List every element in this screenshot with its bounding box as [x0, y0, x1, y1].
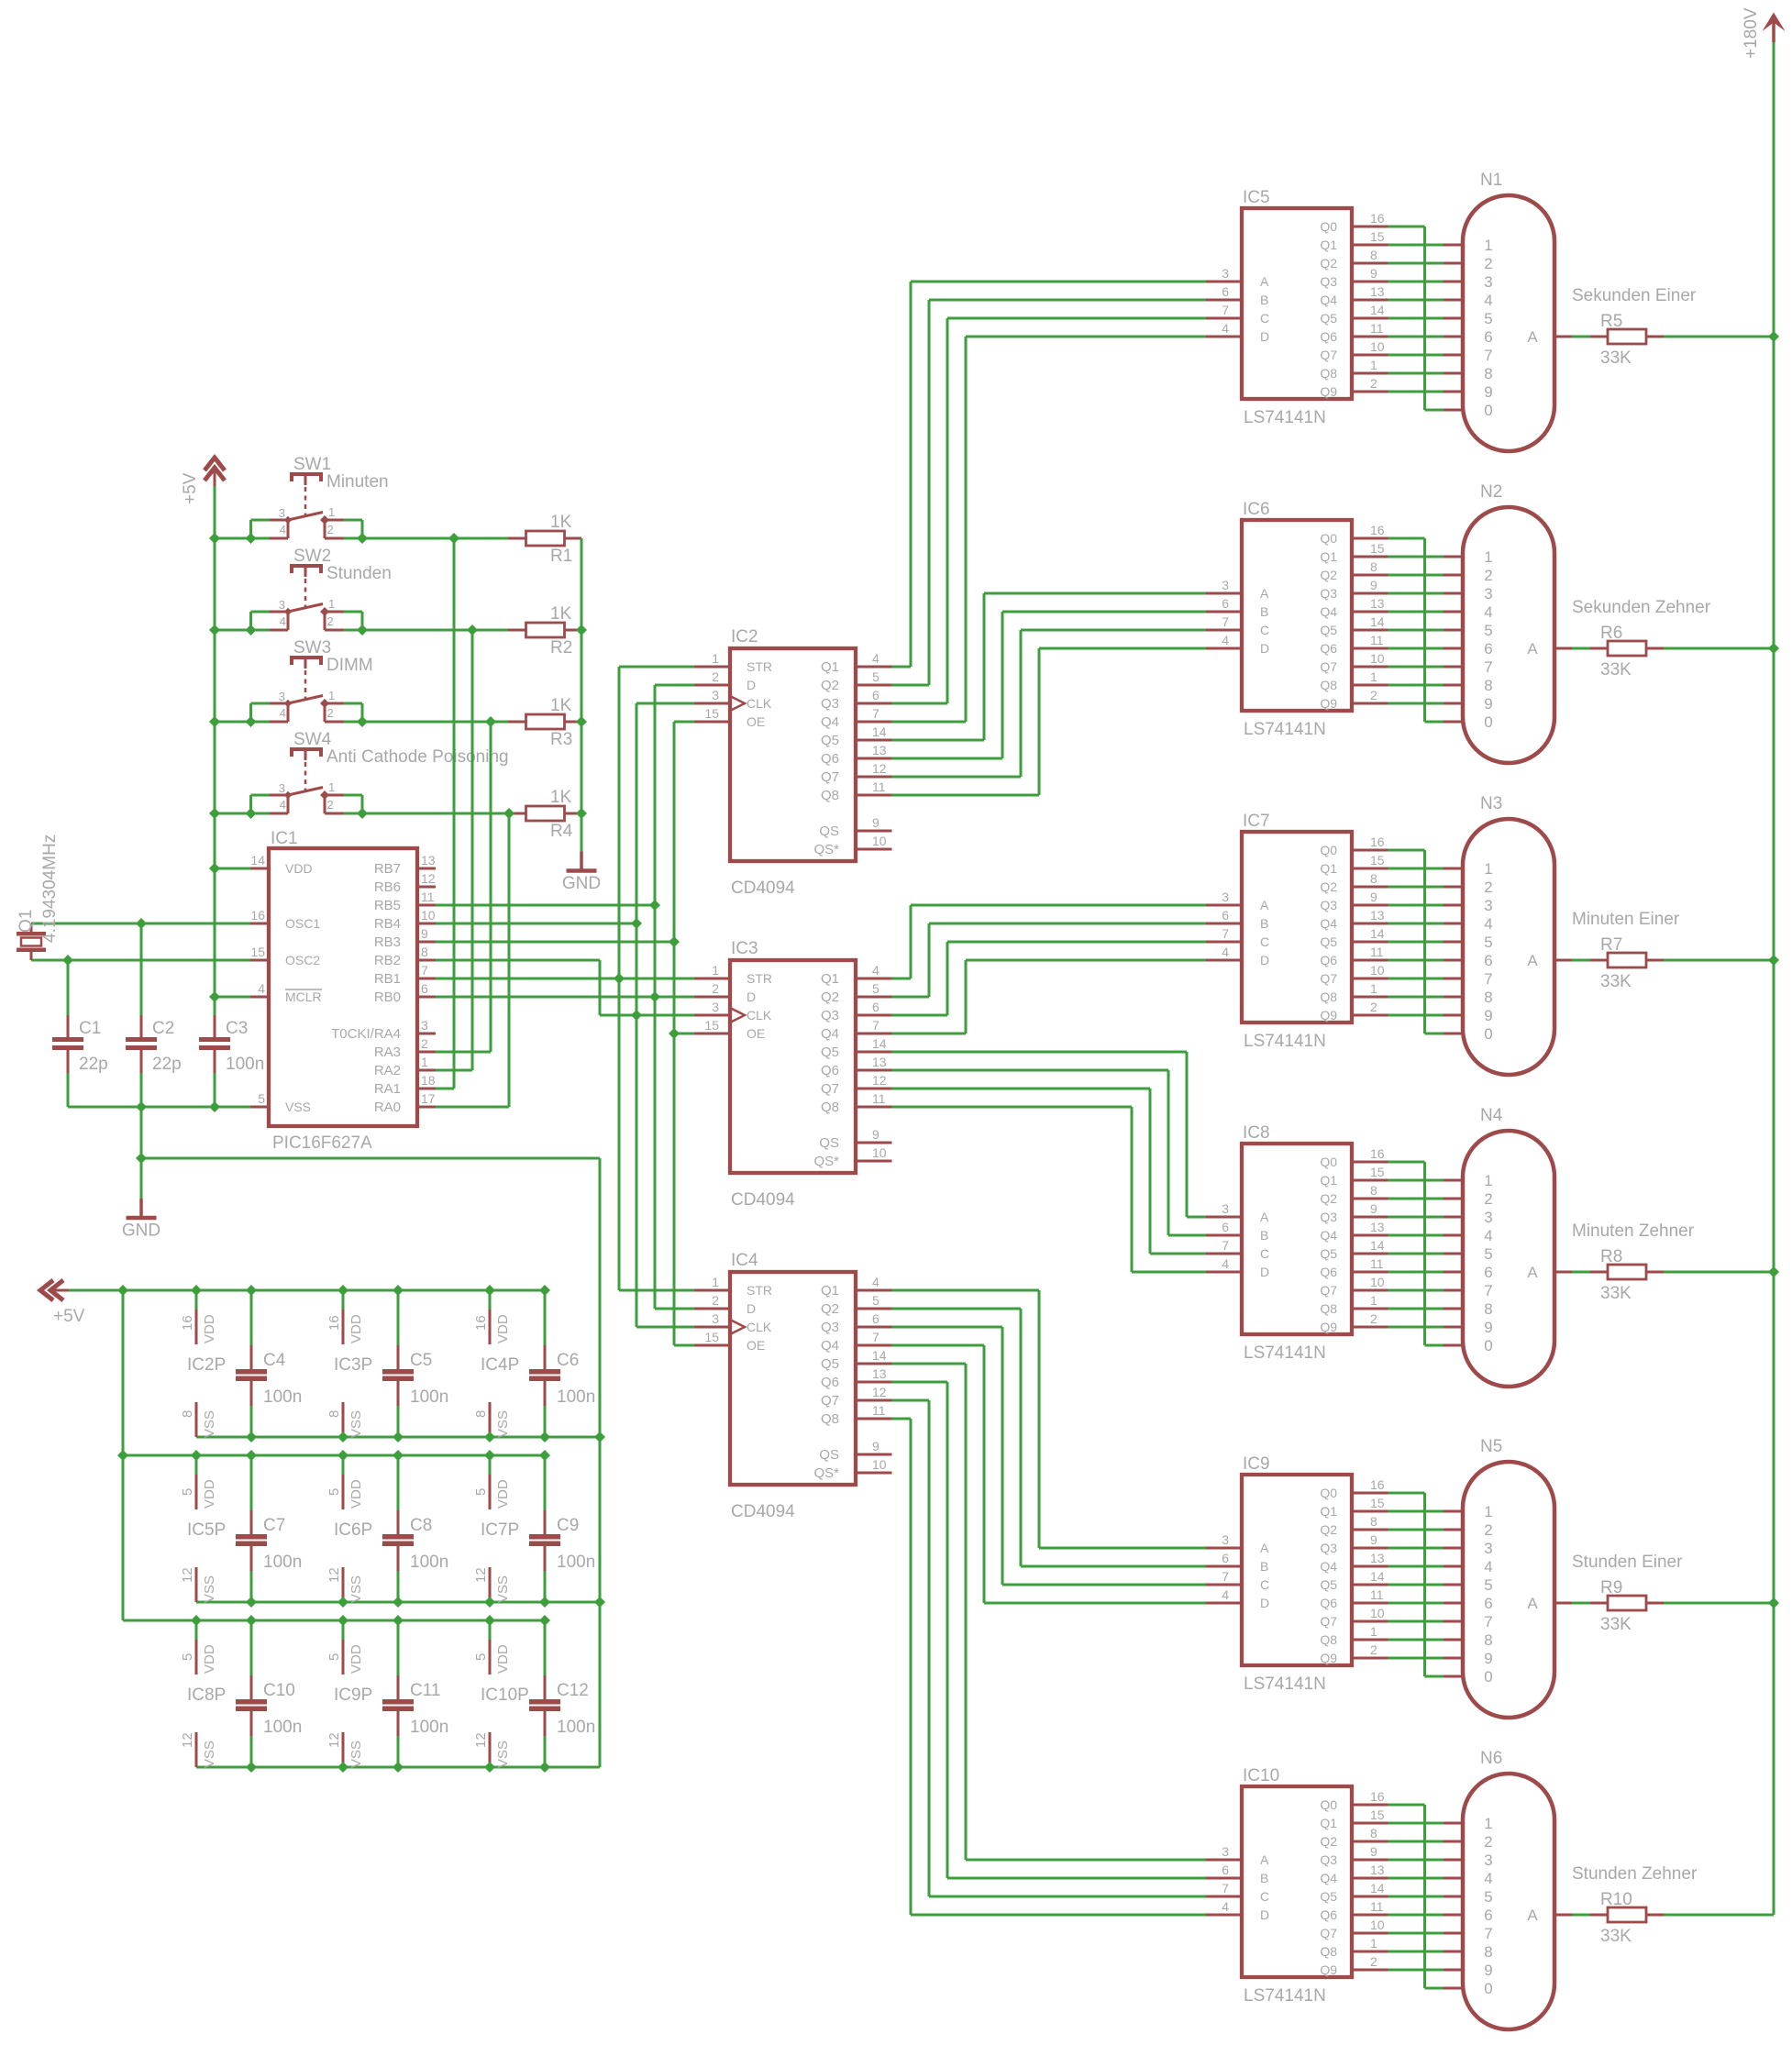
- svg-text:C5: C5: [410, 1351, 432, 1370]
- svg-text:CD4094: CD4094: [731, 879, 795, 898]
- svg-text:A: A: [1527, 640, 1538, 658]
- svg-text:4: 4: [1484, 1558, 1492, 1575]
- svg-text:Q4: Q4: [821, 714, 839, 730]
- svg-text:LS74141N: LS74141N: [1244, 1675, 1326, 1694]
- svg-text:22p: 22p: [152, 1055, 182, 1074]
- svg-text:Stunden Einer: Stunden Einer: [1572, 1553, 1683, 1572]
- svg-text:Q6: Q6: [1320, 641, 1337, 656]
- svg-text:5: 5: [872, 1293, 879, 1308]
- svg-text:8: 8: [473, 1410, 489, 1418]
- svg-text:C4: C4: [263, 1351, 286, 1370]
- svg-text:C: C: [1260, 1889, 1269, 1904]
- svg-text:6: 6: [1222, 1863, 1229, 1877]
- svg-text:STR: STR: [747, 659, 772, 674]
- svg-text:7: 7: [421, 963, 428, 978]
- svg-text:C: C: [1260, 623, 1269, 637]
- svg-text:0: 0: [1484, 1668, 1492, 1686]
- svg-text:6: 6: [1484, 640, 1492, 658]
- svg-text:Q1: Q1: [1320, 1504, 1337, 1519]
- svg-text:Q5: Q5: [821, 1045, 839, 1060]
- svg-text:STR: STR: [747, 1283, 772, 1298]
- svg-text:Q6: Q6: [1320, 1907, 1337, 1922]
- svg-text:Q0: Q0: [1320, 1486, 1337, 1500]
- svg-text:7: 7: [1484, 1925, 1492, 1942]
- svg-text:2: 2: [1484, 879, 1492, 896]
- svg-text:3: 3: [279, 781, 285, 795]
- svg-text:16: 16: [1370, 523, 1385, 537]
- svg-text:Q8: Q8: [1320, 989, 1337, 1004]
- svg-text:VSS: VSS: [495, 1575, 511, 1603]
- svg-text:Q0: Q0: [1320, 219, 1337, 234]
- svg-text:LS74141N: LS74141N: [1244, 408, 1326, 427]
- svg-text:3: 3: [712, 1311, 719, 1326]
- svg-text:Q3: Q3: [1320, 1541, 1337, 1555]
- svg-text:7: 7: [1222, 1238, 1229, 1253]
- svg-text:18: 18: [421, 1073, 436, 1088]
- svg-text:Q8: Q8: [1320, 1944, 1337, 1959]
- svg-text:A: A: [1260, 898, 1269, 912]
- svg-text:5: 5: [872, 981, 879, 996]
- svg-text:Q8: Q8: [821, 1411, 839, 1427]
- svg-text:1: 1: [1370, 1936, 1377, 1951]
- svg-text:0: 0: [1484, 402, 1492, 419]
- svg-text:13: 13: [421, 853, 436, 868]
- svg-text:Q5: Q5: [821, 1356, 839, 1372]
- svg-text:9: 9: [1484, 695, 1492, 713]
- svg-text:13: 13: [872, 743, 887, 757]
- svg-text:33K: 33K: [1600, 1284, 1632, 1303]
- svg-text:QS*: QS*: [813, 842, 839, 857]
- svg-text:1: 1: [328, 780, 335, 794]
- svg-text:A: A: [1527, 952, 1538, 969]
- svg-text:22p: 22p: [79, 1055, 108, 1074]
- svg-text:3: 3: [1222, 266, 1229, 281]
- svg-text:8: 8: [1484, 1300, 1492, 1318]
- svg-text:Minuten Zehner: Minuten Zehner: [1572, 1221, 1695, 1241]
- svg-text:6: 6: [872, 1311, 879, 1326]
- svg-text:Q4: Q4: [821, 1338, 839, 1354]
- svg-text:+180V: +180V: [1742, 7, 1761, 59]
- svg-text:8: 8: [1370, 248, 1377, 262]
- svg-text:Q2: Q2: [1320, 1834, 1337, 1849]
- svg-text:A: A: [1260, 1852, 1269, 1867]
- svg-text:8: 8: [180, 1410, 195, 1418]
- svg-text:11: 11: [1370, 633, 1384, 647]
- svg-text:3: 3: [1222, 1201, 1229, 1216]
- svg-text:SW2: SW2: [293, 547, 331, 566]
- svg-text:Q7: Q7: [1320, 971, 1337, 986]
- svg-text:33K: 33K: [1600, 972, 1632, 991]
- svg-text:7: 7: [872, 706, 879, 721]
- svg-text:100n: 100n: [410, 1387, 448, 1407]
- svg-text:11: 11: [1370, 945, 1384, 959]
- svg-text:12: 12: [872, 1073, 887, 1088]
- svg-text:Q6: Q6: [1320, 329, 1337, 344]
- svg-text:5: 5: [180, 1653, 195, 1661]
- svg-text:Q6: Q6: [1320, 1265, 1337, 1279]
- svg-text:IC4P: IC4P: [481, 1355, 519, 1375]
- svg-text:RB1: RB1: [374, 971, 401, 987]
- svg-text:Minuten: Minuten: [326, 472, 389, 492]
- svg-text:IC9: IC9: [1243, 1454, 1270, 1474]
- svg-text:Q2: Q2: [821, 989, 839, 1005]
- svg-text:4: 4: [872, 963, 879, 978]
- svg-text:Q4: Q4: [821, 1026, 839, 1042]
- svg-text:15: 15: [1370, 541, 1385, 556]
- svg-text:9: 9: [872, 1439, 879, 1454]
- svg-text:MCLR: MCLR: [285, 989, 322, 1004]
- svg-text:D: D: [1260, 953, 1269, 967]
- svg-text:9: 9: [1484, 1319, 1492, 1336]
- svg-text:R7: R7: [1600, 935, 1622, 955]
- svg-text:GND: GND: [562, 874, 601, 893]
- svg-text:2: 2: [1484, 255, 1492, 272]
- svg-text:10: 10: [872, 1145, 887, 1160]
- svg-text:8: 8: [421, 945, 428, 959]
- svg-text:B: B: [1260, 1871, 1268, 1885]
- svg-text:C7: C7: [263, 1516, 285, 1535]
- svg-text:2: 2: [327, 798, 334, 812]
- svg-text:RB7: RB7: [374, 861, 401, 877]
- svg-text:C10: C10: [263, 1681, 295, 1700]
- svg-text:Q9: Q9: [1320, 696, 1337, 711]
- svg-text:Q1: Q1: [821, 971, 839, 987]
- svg-text:VSS: VSS: [348, 1741, 364, 1768]
- svg-text:D: D: [1260, 641, 1269, 656]
- svg-text:OSC1: OSC1: [285, 916, 320, 931]
- svg-text:2: 2: [327, 523, 334, 536]
- svg-text:Q1: Q1: [821, 1283, 839, 1299]
- svg-text:12: 12: [872, 1385, 887, 1399]
- svg-text:Q8: Q8: [1320, 1301, 1337, 1316]
- svg-text:A: A: [1260, 586, 1269, 601]
- svg-text:3: 3: [1484, 1209, 1492, 1226]
- svg-text:VDD: VDD: [348, 1314, 364, 1343]
- svg-text:12: 12: [326, 1732, 342, 1748]
- svg-text:B: B: [1260, 604, 1268, 619]
- svg-text:10: 10: [1370, 339, 1385, 354]
- svg-text:B: B: [1260, 293, 1268, 307]
- svg-text:VSS: VSS: [348, 1575, 364, 1603]
- svg-text:14: 14: [872, 1348, 887, 1363]
- svg-text:3: 3: [1222, 890, 1229, 904]
- svg-text:Minuten Einer: Minuten Einer: [1572, 910, 1680, 929]
- svg-text:A: A: [1260, 1210, 1269, 1224]
- svg-text:7: 7: [1484, 1613, 1492, 1630]
- svg-text:15: 15: [1370, 229, 1385, 244]
- svg-text:33K: 33K: [1600, 1615, 1632, 1634]
- svg-text:1K: 1K: [550, 696, 572, 715]
- svg-text:R9: R9: [1600, 1578, 1622, 1597]
- svg-text:GND: GND: [122, 1221, 160, 1241]
- svg-text:9: 9: [1484, 383, 1492, 401]
- svg-text:16: 16: [1370, 1789, 1385, 1804]
- svg-text:14: 14: [1370, 1569, 1385, 1584]
- svg-text:C: C: [1260, 1246, 1269, 1261]
- svg-text:8: 8: [1484, 365, 1492, 382]
- svg-text:1: 1: [1484, 1172, 1492, 1189]
- svg-text:C: C: [1260, 1577, 1269, 1592]
- svg-text:Q0: Q0: [1320, 1797, 1337, 1812]
- svg-text:14: 14: [1370, 303, 1385, 317]
- svg-text:3: 3: [712, 688, 719, 702]
- svg-text:Q3: Q3: [1320, 1852, 1337, 1867]
- svg-text:16: 16: [180, 1315, 195, 1331]
- svg-text:QS: QS: [819, 824, 839, 839]
- svg-text:Q7: Q7: [1320, 1614, 1337, 1629]
- svg-text:12: 12: [180, 1567, 195, 1583]
- svg-text:15: 15: [1370, 1807, 1385, 1822]
- svg-text:OE: OE: [747, 714, 765, 729]
- svg-text:1: 1: [712, 1275, 719, 1289]
- svg-text:R2: R2: [550, 638, 572, 658]
- svg-text:2: 2: [1370, 688, 1377, 702]
- svg-text:6: 6: [1484, 1595, 1492, 1612]
- svg-text:33K: 33K: [1600, 348, 1632, 368]
- svg-text:100n: 100n: [410, 1553, 448, 1572]
- svg-text:OE: OE: [747, 1338, 765, 1353]
- svg-text:VSS: VSS: [495, 1410, 511, 1438]
- svg-text:Q1: Q1: [1320, 1173, 1337, 1188]
- svg-text:N5: N5: [1480, 1437, 1502, 1456]
- svg-text:CLK: CLK: [747, 1320, 772, 1334]
- svg-text:16: 16: [473, 1315, 489, 1331]
- svg-text:1: 1: [1484, 1503, 1492, 1520]
- svg-text:2: 2: [327, 614, 334, 628]
- svg-text:2: 2: [1370, 1642, 1377, 1657]
- svg-text:15: 15: [704, 1330, 719, 1344]
- svg-text:Q6: Q6: [821, 751, 839, 767]
- svg-text:PIC16F627A: PIC16F627A: [272, 1133, 372, 1153]
- svg-text:QS: QS: [819, 1447, 839, 1463]
- svg-text:33K: 33K: [1600, 1927, 1632, 1946]
- svg-text:Q9: Q9: [1320, 1962, 1337, 1977]
- svg-text:15: 15: [250, 945, 265, 959]
- svg-text:6: 6: [1222, 908, 1229, 923]
- svg-text:D: D: [747, 989, 756, 1004]
- svg-text:Q2: Q2: [821, 678, 839, 693]
- svg-text:Q7: Q7: [821, 1393, 839, 1409]
- svg-text:14: 14: [1370, 1238, 1385, 1253]
- svg-text:12: 12: [473, 1567, 489, 1583]
- svg-text:SW3: SW3: [293, 638, 331, 658]
- svg-text:Q1: Q1: [1320, 1816, 1337, 1830]
- svg-text:IC7P: IC7P: [481, 1520, 519, 1540]
- svg-text:D: D: [1260, 329, 1269, 344]
- svg-text:Q1: Q1: [821, 659, 839, 675]
- svg-text:9: 9: [1484, 1962, 1492, 1979]
- svg-text:QS*: QS*: [813, 1465, 839, 1481]
- svg-text:VSS: VSS: [202, 1575, 217, 1603]
- svg-text:8: 8: [1370, 1183, 1377, 1198]
- svg-text:+5V: +5V: [53, 1307, 85, 1326]
- svg-text:LS74141N: LS74141N: [1244, 1343, 1326, 1363]
- svg-text:3: 3: [1484, 585, 1492, 602]
- svg-text:100n: 100n: [557, 1718, 595, 1737]
- svg-text:QS*: QS*: [813, 1154, 839, 1169]
- svg-text:RB2: RB2: [374, 953, 401, 968]
- svg-text:A: A: [1260, 274, 1269, 289]
- svg-text:Q2: Q2: [1320, 1191, 1337, 1206]
- svg-text:Q5: Q5: [1320, 311, 1337, 326]
- svg-text:0: 0: [1484, 1980, 1492, 1997]
- svg-text:RB5: RB5: [374, 898, 401, 913]
- svg-text:IC2: IC2: [731, 627, 758, 647]
- svg-text:Q4: Q4: [1320, 916, 1337, 931]
- svg-text:5: 5: [258, 1091, 265, 1106]
- svg-text:0: 0: [1484, 713, 1492, 731]
- svg-text:LS74141N: LS74141N: [1244, 1032, 1326, 1051]
- svg-text:10: 10: [872, 834, 887, 848]
- svg-text:2: 2: [1370, 1000, 1377, 1014]
- svg-text:Q8: Q8: [821, 1100, 839, 1115]
- svg-text:A: A: [1260, 1541, 1269, 1555]
- svg-text:8: 8: [1370, 559, 1377, 574]
- svg-text:R3: R3: [550, 730, 572, 749]
- svg-text:5: 5: [1484, 622, 1492, 639]
- svg-text:Q5: Q5: [821, 733, 839, 748]
- svg-text:1: 1: [1370, 358, 1377, 372]
- svg-text:R4: R4: [550, 822, 573, 841]
- svg-text:Q2: Q2: [1320, 568, 1337, 582]
- svg-text:1: 1: [1484, 1815, 1492, 1832]
- svg-text:4: 4: [872, 1275, 879, 1289]
- svg-text:100n: 100n: [263, 1553, 302, 1572]
- svg-text:11: 11: [872, 1091, 886, 1106]
- svg-text:9: 9: [1370, 1532, 1377, 1547]
- svg-text:9: 9: [1484, 1650, 1492, 1667]
- svg-text:Q1: Q1: [17, 910, 36, 933]
- svg-text:B: B: [1260, 1228, 1268, 1243]
- svg-text:5: 5: [473, 1488, 489, 1496]
- svg-text:10: 10: [1370, 1275, 1385, 1289]
- svg-text:R10: R10: [1600, 1890, 1632, 1909]
- svg-text:IC6: IC6: [1243, 500, 1270, 519]
- svg-text:11: 11: [1370, 321, 1384, 336]
- svg-text:7: 7: [1222, 926, 1229, 941]
- svg-text:VSS: VSS: [202, 1741, 217, 1768]
- svg-text:2: 2: [712, 1293, 719, 1308]
- svg-text:Q0: Q0: [1320, 1155, 1337, 1169]
- svg-text:D: D: [1260, 1596, 1269, 1610]
- svg-text:3: 3: [421, 1018, 428, 1033]
- svg-text:15: 15: [704, 706, 719, 721]
- svg-text:4: 4: [280, 798, 286, 812]
- svg-text:IC3P: IC3P: [334, 1355, 372, 1375]
- svg-text:2: 2: [1484, 1190, 1492, 1208]
- svg-text:VSS: VSS: [348, 1410, 364, 1438]
- svg-text:6: 6: [1222, 596, 1229, 611]
- svg-text:RB0: RB0: [374, 989, 401, 1005]
- svg-text:6: 6: [1222, 1551, 1229, 1565]
- svg-text:RA3: RA3: [374, 1045, 401, 1060]
- svg-text:12: 12: [872, 761, 887, 776]
- svg-text:5: 5: [872, 669, 879, 684]
- svg-text:5: 5: [1484, 1245, 1492, 1263]
- svg-text:N6: N6: [1480, 1749, 1502, 1768]
- svg-text:13: 13: [1370, 908, 1385, 923]
- svg-text:IC9P: IC9P: [334, 1686, 372, 1705]
- svg-text:Q8: Q8: [1320, 678, 1337, 692]
- svg-text:1K: 1K: [550, 604, 572, 624]
- svg-text:7: 7: [1484, 970, 1492, 988]
- svg-text:1: 1: [712, 963, 719, 978]
- svg-text:Q7: Q7: [1320, 659, 1337, 674]
- svg-text:14: 14: [872, 1036, 887, 1051]
- svg-text:Q2: Q2: [1320, 879, 1337, 894]
- svg-text:C11: C11: [410, 1681, 440, 1700]
- svg-text:4: 4: [280, 706, 286, 720]
- svg-text:15: 15: [1370, 853, 1385, 868]
- svg-text:4: 4: [1222, 1899, 1229, 1914]
- svg-text:VDD: VDD: [495, 1644, 511, 1674]
- svg-text:D: D: [747, 1301, 756, 1316]
- svg-text:4: 4: [1484, 1870, 1492, 1887]
- svg-text:Q3: Q3: [1320, 586, 1337, 601]
- svg-text:Q6: Q6: [1320, 1596, 1337, 1610]
- svg-text:12: 12: [421, 871, 436, 886]
- svg-text:4: 4: [1222, 945, 1229, 959]
- svg-text:1: 1: [1370, 981, 1377, 996]
- svg-text:C: C: [1260, 934, 1269, 949]
- svg-text:6: 6: [1484, 1907, 1492, 1924]
- svg-text:1K: 1K: [550, 513, 572, 532]
- svg-text:10: 10: [1370, 963, 1385, 978]
- svg-text:3: 3: [1222, 1532, 1229, 1547]
- svg-text:Q7: Q7: [1320, 1283, 1337, 1298]
- svg-text:IC3: IC3: [731, 939, 758, 958]
- svg-text:Q3: Q3: [821, 1008, 839, 1023]
- svg-text:8: 8: [1484, 1631, 1492, 1649]
- svg-text:5: 5: [326, 1653, 342, 1661]
- svg-text:14: 14: [1370, 1881, 1385, 1896]
- svg-text:1: 1: [328, 597, 335, 611]
- svg-text:B: B: [1260, 916, 1268, 931]
- svg-text:8: 8: [1484, 677, 1492, 694]
- svg-text:N4: N4: [1480, 1106, 1503, 1125]
- svg-text:4: 4: [1484, 292, 1492, 309]
- svg-text:11: 11: [872, 1403, 886, 1418]
- svg-text:C3: C3: [226, 1019, 248, 1038]
- svg-text:Q4: Q4: [1320, 1559, 1337, 1574]
- svg-text:100n: 100n: [557, 1387, 595, 1407]
- svg-text:Sekunden Einer: Sekunden Einer: [1572, 286, 1697, 305]
- svg-text:Q9: Q9: [1320, 384, 1337, 399]
- svg-text:C2: C2: [152, 1019, 174, 1038]
- svg-text:CD4094: CD4094: [731, 1190, 795, 1210]
- svg-text:7: 7: [1484, 347, 1492, 364]
- svg-text:13: 13: [1370, 1551, 1385, 1565]
- svg-text:1: 1: [1484, 860, 1492, 878]
- svg-text:D: D: [747, 678, 756, 692]
- svg-text:VDD: VDD: [348, 1644, 364, 1674]
- svg-text:1: 1: [712, 651, 719, 666]
- svg-text:SW1: SW1: [293, 455, 331, 474]
- svg-text:10: 10: [1370, 651, 1385, 666]
- svg-text:10: 10: [421, 908, 436, 923]
- svg-text:VDD: VDD: [202, 1479, 217, 1509]
- svg-text:15: 15: [1370, 1165, 1385, 1179]
- svg-text:9: 9: [1370, 578, 1377, 592]
- svg-text:5: 5: [1484, 934, 1492, 951]
- svg-text:4: 4: [1222, 633, 1229, 647]
- svg-text:100n: 100n: [226, 1055, 264, 1074]
- svg-text:2: 2: [421, 1036, 428, 1051]
- svg-text:C9: C9: [557, 1516, 579, 1535]
- svg-text:3: 3: [1222, 578, 1229, 592]
- svg-text:VSS: VSS: [495, 1741, 511, 1768]
- svg-text:5: 5: [1484, 1576, 1492, 1594]
